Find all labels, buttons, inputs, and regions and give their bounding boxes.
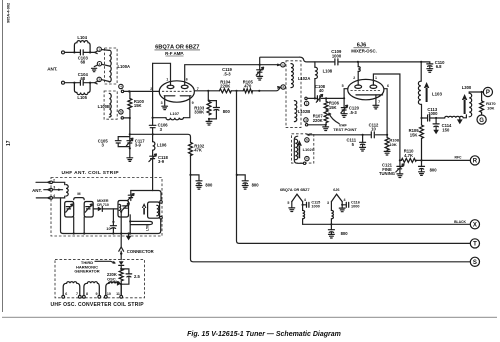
svg-text:10K: 10K [487, 105, 494, 110]
ground R103 [208, 119, 210, 121]
wire ant pins [36, 181, 50, 183]
cathode 6J6 [356, 94, 383, 96]
wire L102B bottom to R107 ground [308, 124, 326, 126]
svg-text:UHF ANT. COIL STRIP: UHF ANT. COIL STRIP [62, 170, 120, 176]
svg-text:68: 68 [80, 76, 85, 81]
trimmer over loop3 [130, 191, 132, 201]
capacitor C114 [435, 118, 437, 130]
capacitor C120 variable [343, 98, 345, 113]
ground C119 [257, 76, 263, 80]
svg-text:15K: 15K [134, 103, 142, 108]
svg-text:X: X [473, 223, 477, 229]
svg-text:6J6: 6J6 [333, 188, 339, 192]
wire to pin 11 [120, 284, 122, 295]
hairpin line [130, 215, 152, 234]
resonator loop 1 [65, 202, 74, 218]
svg-text:L102A: L102A [298, 76, 310, 81]
resistor R110 [400, 159, 422, 161]
svg-text:RFC: RFC [455, 155, 463, 159]
wire ant top [65, 51, 95, 53]
svg-text:6BQ7A OR 6BZ7: 6BQ7A OR 6BZ7 [280, 188, 310, 192]
ground [127, 158, 133, 162]
page left rule [2, 0, 4, 312]
svg-text:150: 150 [442, 127, 450, 132]
wire loop [118, 134, 130, 158]
svg-text:3: 3 [327, 201, 329, 205]
heater choke 2 [330, 202, 332, 225]
capacitor C119 variable [259, 64, 261, 66]
plate pin 1 [153, 63, 171, 85]
dashed box UHF osc [55, 260, 145, 298]
svg-text:OSC.: OSC. [107, 276, 117, 281]
svg-text:L107: L107 [170, 111, 180, 116]
ground C110 [427, 69, 433, 73]
svg-text:6: 6 [186, 77, 188, 81]
svg-text:1000: 1000 [311, 205, 319, 209]
inductor L106 [152, 134, 154, 141]
svg-text:L50: L50 [146, 225, 150, 231]
svg-text:.5-3: .5-3 [223, 71, 231, 76]
svg-text:800: 800 [341, 231, 349, 236]
coupling link coil [436, 117, 445, 119]
heater bus wire [303, 223, 471, 225]
capacitor 800 (heater) [330, 224, 332, 234]
svg-text:10: 10 [371, 127, 376, 132]
pointer arrow [95, 261, 115, 263]
svg-text:15K: 15K [410, 132, 418, 137]
svg-text:MIXER-OSC.: MIXER-OSC. [351, 48, 377, 53]
terminal S [470, 257, 479, 266]
svg-text:L100A: L100A [118, 64, 131, 69]
svg-text:5: 5 [287, 201, 289, 205]
pin L100B bottom [119, 110, 123, 114]
terminal G [477, 115, 486, 124]
svg-text:4: 4 [304, 198, 306, 202]
filament 6J6 [331, 194, 342, 201]
svg-text:UHF OSC. CONVERTER COIL STRIP: UHF OSC. CONVERTER COIL STRIP [51, 302, 145, 308]
capacitor 800 (T line) [237, 175, 245, 186]
svg-text:BLACK: BLACK [454, 220, 466, 224]
svg-text:6: 6 [387, 84, 389, 88]
pin contact 1 [95, 51, 98, 53]
ground arrow C114 [433, 130, 439, 135]
grid dashes 6J6 [351, 89, 382, 91]
svg-text:5: 5 [342, 84, 344, 88]
svg-text:10: 10 [107, 292, 111, 296]
svg-text:3: 3 [161, 101, 163, 105]
wire left column [153, 63, 166, 117]
tube envelope U2 [348, 79, 384, 99]
svg-text:15K: 15K [329, 105, 337, 110]
capacitor C108 trimmer [317, 96, 320, 102]
resistor R106 [324, 98, 328, 110]
capacitor C110 [421, 62, 430, 69]
capacitor 800 (S line) [191, 175, 200, 186]
inductor L300 [469, 93, 471, 117]
capacitor C113 [422, 117, 437, 119]
svg-text:10K: 10K [389, 142, 396, 147]
ground C120 [341, 114, 347, 118]
svg-text:2.5: 2.5 [134, 274, 140, 279]
pin L102C bottom [305, 156, 309, 160]
svg-text:800: 800 [223, 109, 231, 114]
svg-text:L300: L300 [462, 85, 472, 90]
capacitor C116 [342, 202, 345, 205]
resistor R107 [324, 110, 328, 125]
inductor L105 [74, 83, 90, 95]
resistor R102 and S line [189, 142, 193, 155]
svg-text:G: G [479, 118, 484, 124]
inductor L103 [418, 81, 421, 104]
svg-text:TEST POINT: TEST POINT [333, 127, 357, 132]
pin L102A top [260, 64, 280, 65]
svg-text:8: 8 [86, 292, 88, 296]
pin L102C top [305, 138, 309, 142]
svg-text:800: 800 [252, 182, 260, 187]
svg-text:1000: 1000 [332, 53, 342, 58]
coil L102A [291, 64, 293, 88]
capacitor C118 variable [152, 150, 154, 190]
svg-text:9: 9 [192, 101, 194, 105]
svg-text:220K: 220K [313, 118, 323, 123]
resistor R100 [129, 91, 131, 98]
svg-text:800: 800 [205, 182, 213, 187]
ground filament left [291, 202, 293, 208]
svg-text:P: P [486, 90, 490, 96]
middle pin contact with ground [97, 62, 101, 66]
capacitor C112 [371, 132, 374, 138]
terminal P [483, 87, 492, 96]
wire RFC to terminal R [422, 159, 471, 161]
svg-text:47K: 47K [194, 148, 202, 153]
mixer grid wire [307, 97, 344, 99]
ground pin 3 [162, 106, 168, 109]
ground arrow link [459, 118, 461, 120]
svg-text:11: 11 [116, 292, 120, 296]
dashed box UHF ant [51, 178, 162, 237]
resistor R109 [420, 125, 424, 160]
input coupling coil [53, 182, 65, 198]
terminal ANT bottom [62, 81, 65, 84]
svg-text:330K: 330K [194, 110, 204, 115]
capacitor C111 [362, 135, 364, 148]
wire ant bottom [65, 82, 95, 84]
coil L102C dashed box [292, 134, 314, 163]
coil L102C [295, 139, 297, 160]
strip coil 6-7 [63, 282, 80, 296]
svg-text:1: 1 [166, 77, 168, 81]
plate pin 6 [185, 65, 260, 86]
svg-text:9: 9 [96, 292, 98, 296]
resistor R104 [219, 89, 231, 93]
pin contact 3 [95, 82, 98, 84]
pin L102A bottom [278, 87, 281, 88]
resistor R103 with 800 cap [207, 91, 209, 101]
ground pin 7 [373, 105, 379, 109]
wire pins to L100A [101, 50, 109, 82]
inductor L108 [314, 62, 316, 99]
ground arrow bus [128, 234, 130, 236]
terminal ANT top [62, 51, 65, 54]
svg-text:M: M [77, 192, 80, 196]
wire grid line to tube pin 2 [124, 90, 160, 92]
tube envelope U1 [159, 81, 194, 102]
cathode right pin 9 [180, 95, 191, 97]
resonator loop 3 [113, 208, 118, 210]
filament 6BQ7A [292, 194, 303, 201]
svg-text:3-9: 3-9 [135, 143, 142, 148]
svg-text:6BQ7A OR 6BZ7: 6BQ7A OR 6BZ7 [155, 45, 199, 51]
svg-text:.5-3: .5-3 [350, 110, 358, 115]
svg-text:4.7K: 4.7K [404, 153, 413, 158]
svg-text:7: 7 [378, 100, 380, 104]
svg-text:470: 470 [244, 84, 252, 89]
capacitor C106 [152, 118, 154, 135]
strip coil 10-11 [106, 282, 121, 296]
capacitor C103 [80, 50, 83, 55]
svg-text:1000: 1000 [428, 111, 438, 116]
terminal X [470, 220, 479, 229]
wire L102C bottom link [294, 136, 303, 163]
svg-text:L102C: L102C [303, 147, 315, 152]
capacitor C115 [303, 202, 306, 205]
wire jog with hop to C109 [260, 57, 334, 65]
wire cathode return [124, 109, 130, 134]
capacitor 2.5 [121, 269, 129, 284]
svg-text:1: 1 [375, 76, 377, 80]
svg-text:6: 6 [65, 292, 67, 296]
resonator loop 2 [84, 202, 93, 218]
svg-text:40: 40 [319, 88, 324, 93]
capacitor C109 [335, 59, 338, 65]
svg-text:L104: L104 [77, 35, 87, 40]
wire y135 [309, 134, 387, 136]
svg-text:R-F AMP.: R-F AMP. [165, 51, 184, 56]
svg-text:R: R [473, 159, 478, 165]
osc injection coil arrow [120, 281, 122, 284]
svg-text:ANT.: ANT. [32, 188, 42, 193]
svg-text:17: 17 [6, 140, 12, 146]
svg-text:7: 7 [76, 292, 78, 296]
coil L100A (dashed box) [105, 48, 118, 84]
svg-text:L108: L108 [323, 68, 333, 73]
capacitor 800 (R103 bypass) [209, 101, 216, 119]
diode third harmonic [119, 261, 124, 265]
svg-text:TUNING: TUNING [379, 171, 395, 176]
svg-text:1000: 1000 [351, 205, 359, 209]
pin L102B bottom [304, 118, 308, 122]
capacitor C121 fine tuning [399, 160, 401, 173]
wire connector tap [120, 212, 122, 247]
coil L100B (dashed box) [104, 91, 117, 119]
svg-text:2: 2 [353, 76, 355, 80]
svg-text:220K: 220K [220, 84, 230, 89]
pin L102B top [304, 101, 308, 105]
wire osc vertical [420, 62, 422, 125]
L102C slug arrow [297, 140, 302, 158]
bus wire [63, 219, 161, 234]
svg-text:3-9: 3-9 [158, 159, 165, 164]
strip coil 8-9 [84, 282, 99, 296]
resistor R108 [385, 135, 389, 152]
diode CR [93, 209, 113, 222]
dashed strip box AB [286, 61, 301, 128]
connector arrow [119, 247, 124, 260]
pin 2 with choke [357, 62, 359, 85]
grid dashes [162, 90, 192, 92]
cathode left pin 3 [164, 95, 175, 97]
wire to T [237, 91, 471, 244]
capacitor C104 [80, 80, 83, 85]
ground filament2 [341, 205, 343, 208]
coil L102B [294, 101, 296, 122]
wire to R102 [130, 134, 191, 142]
svg-text:S: S [473, 260, 477, 266]
svg-text:L103: L103 [432, 92, 443, 97]
capacitor C105 [115, 141, 121, 143]
resistor 220K [119, 269, 123, 281]
svg-text:L100B: L100B [98, 104, 110, 109]
svg-text:6.8: 6.8 [436, 64, 442, 69]
svg-text:68: 68 [80, 60, 85, 65]
svg-text:L105: L105 [77, 95, 87, 100]
bottom rule [2, 316, 497, 318]
section 4 mixer coil [153, 191, 161, 219]
inductor L107 [166, 118, 183, 120]
capacitor 800 (osc) [421, 160, 423, 171]
pin L100B top [119, 84, 123, 88]
heater choke 1 [302, 205, 304, 225]
resistor R105 [243, 89, 252, 93]
svg-text:10: 10 [106, 226, 111, 231]
capacitor C117 variable [127, 141, 133, 143]
svg-text:800: 800 [430, 167, 438, 172]
pin 1 wire to fine tuning line [373, 74, 400, 160]
svg-text:CONNECTOR: CONNECTOR [127, 249, 154, 254]
terminal T [470, 239, 479, 248]
svg-text:4: 4 [344, 198, 346, 202]
inductor L104 [74, 41, 90, 53]
svg-text:T: T [473, 242, 477, 248]
svg-text:L102B: L102B [298, 109, 310, 114]
svg-text:ANT.: ANT. [47, 66, 57, 71]
svg-text:Fig. 15 V-12615-1 Tuner — Sch: Fig. 15 V-12615-1 Tuner — Schematic Diag… [187, 331, 341, 338]
resistor R370 [481, 92, 483, 101]
ground R107 [325, 125, 327, 127]
svg-text:905A-4-902: 905A-4-902 [7, 3, 11, 23]
M coupling bracket [74, 198, 85, 200]
svg-text:L106: L106 [157, 142, 167, 147]
wire plate bus [194, 87, 280, 91]
svg-text:GENERATOR: GENERATOR [74, 269, 99, 274]
wire down to bus [61, 198, 64, 234]
terminal R [470, 156, 479, 165]
capacitor 10 [112, 222, 114, 234]
wire osc top line [339, 61, 422, 63]
